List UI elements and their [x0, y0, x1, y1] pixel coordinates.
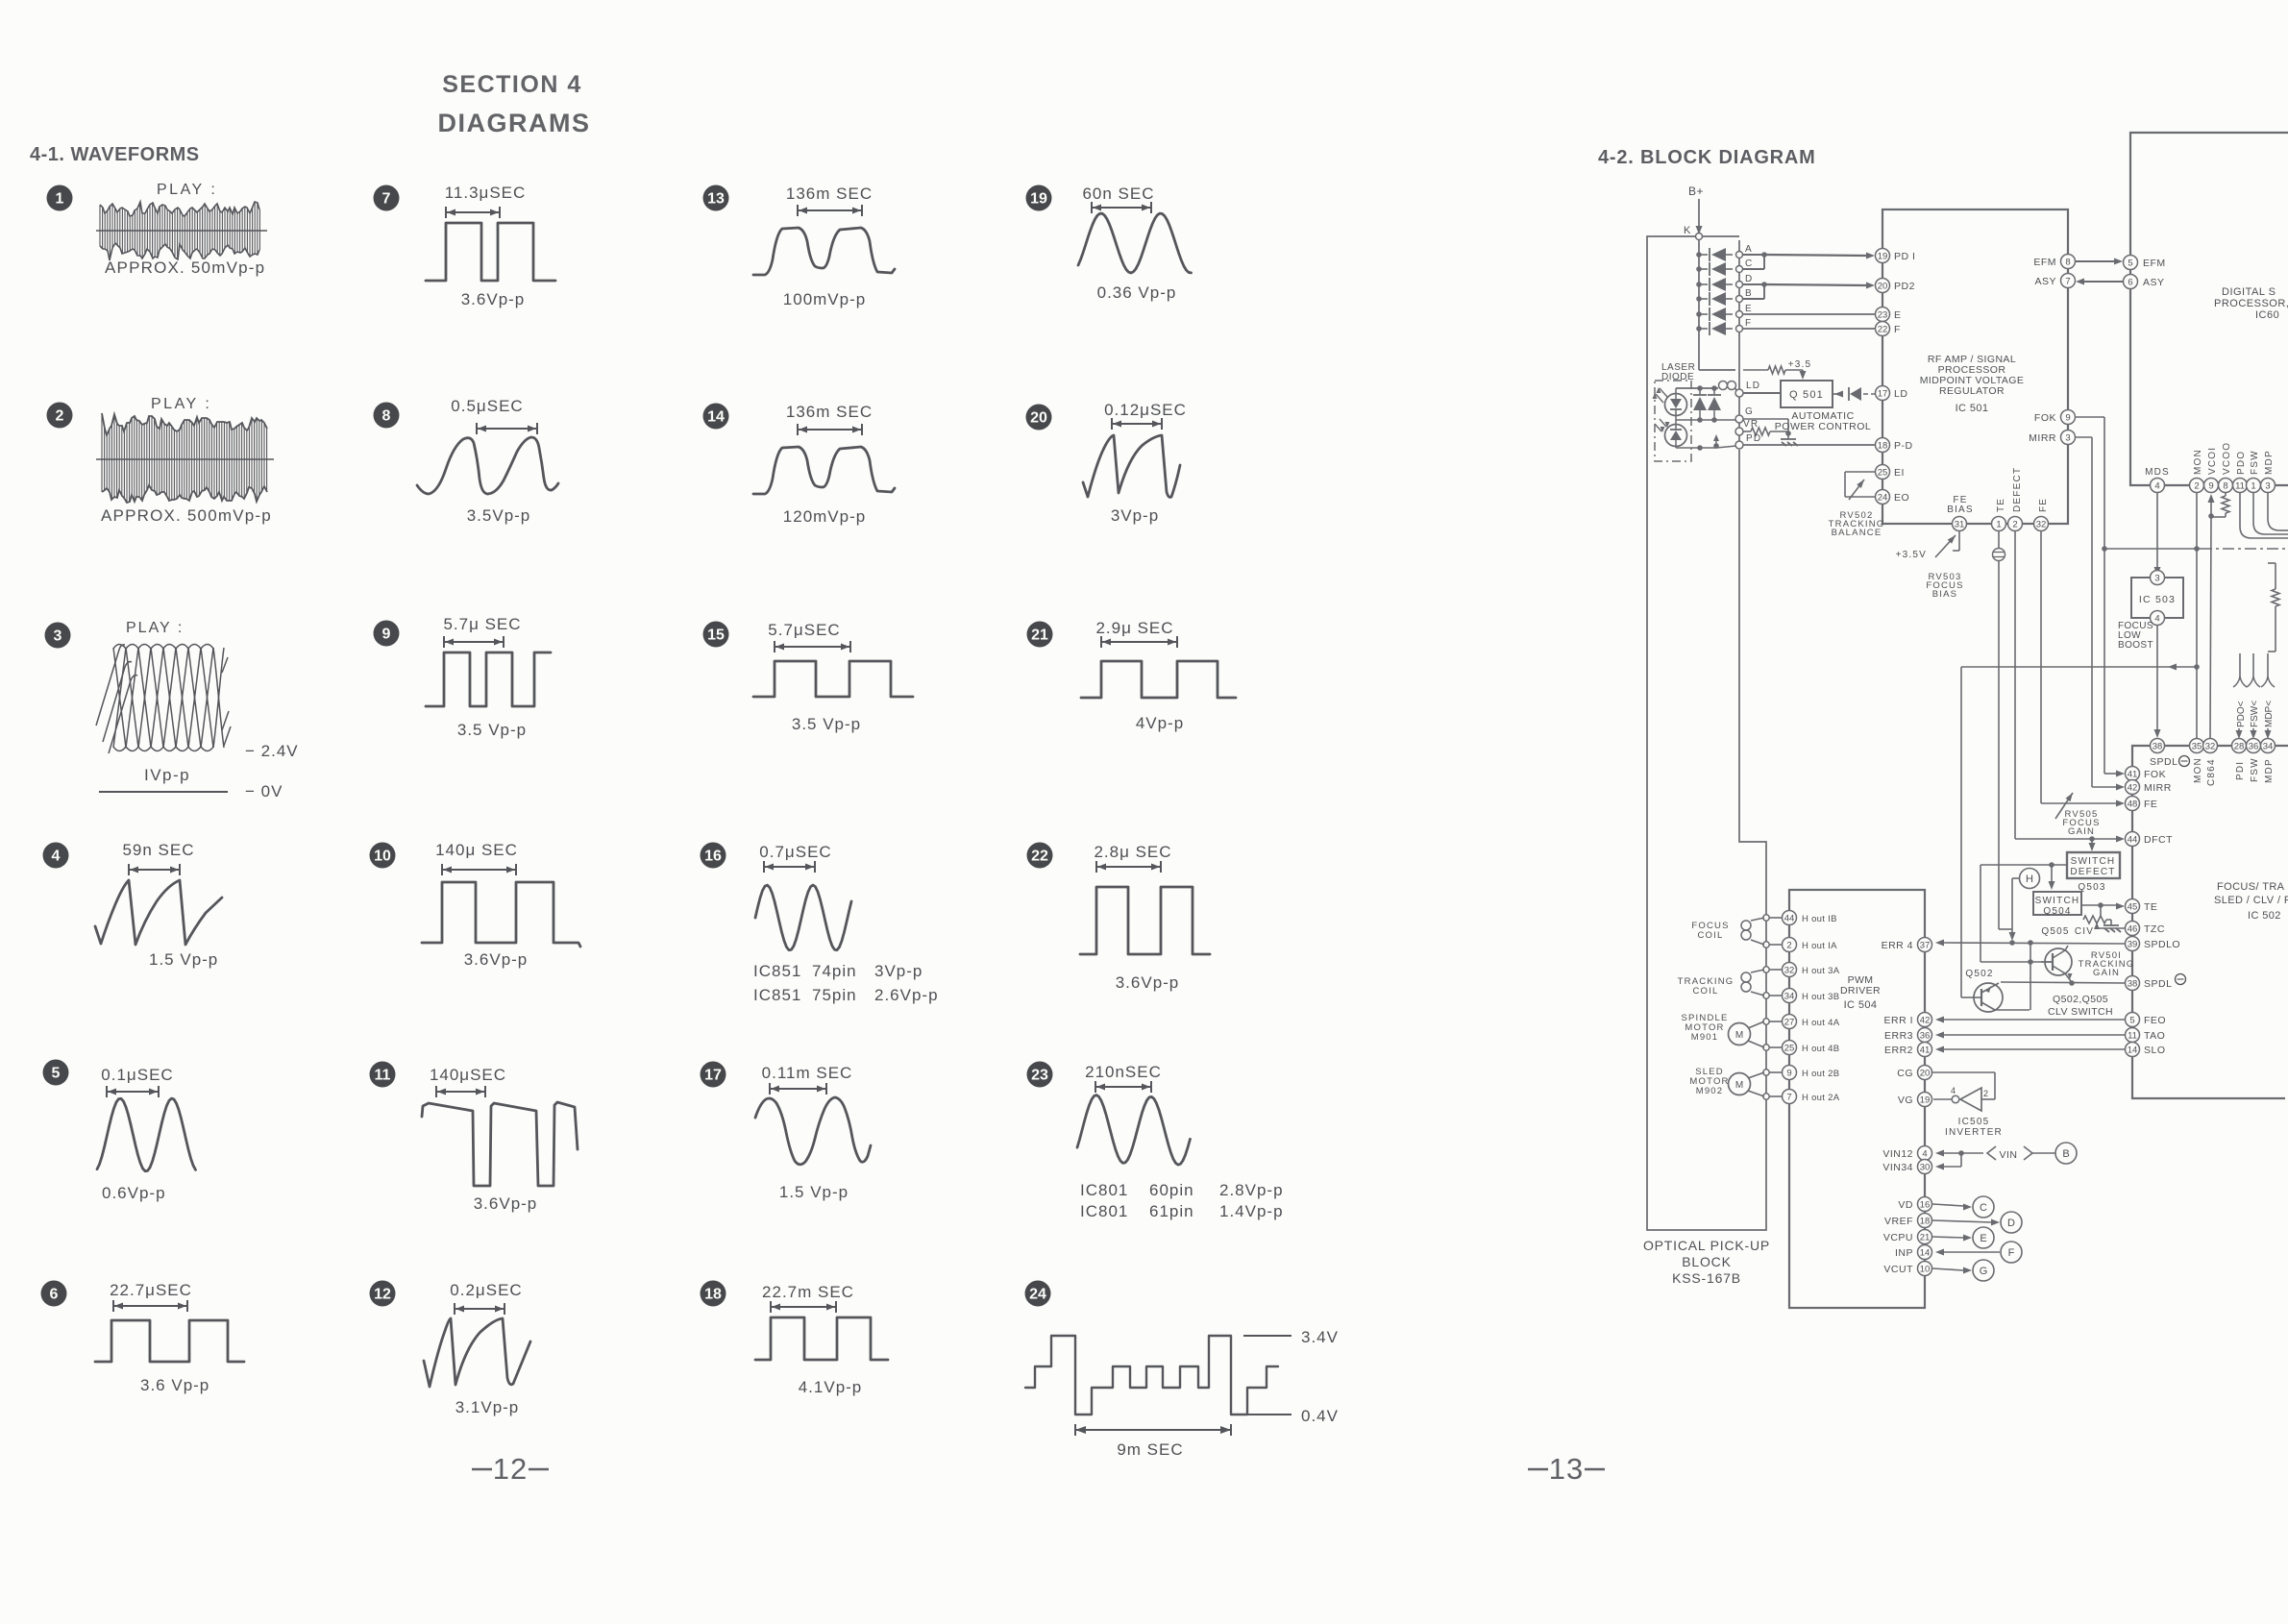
waveform 3 baseline: [99, 791, 228, 793]
waveform 1 noisy EFM trace: [96, 202, 267, 260]
svg-text:FOCUS/ TRA: FOCUS/ TRA: [2217, 881, 2285, 893]
waveform 16 measure arrow: [764, 861, 815, 873]
waveform 2 value label: [101, 506, 272, 525]
svg-text:11.3μSEC: 11.3μSEC: [445, 184, 527, 202]
SPDL- label: [2150, 756, 2190, 769]
svg-text:EFM: EFM: [2033, 257, 2056, 268]
wire Q504 to TE: [2081, 902, 2125, 909]
waveform 4 measure arrow: [129, 864, 180, 875]
node G and wire: [1676, 406, 1788, 432]
svg-text:FEO: FEO: [2144, 1015, 2166, 1026]
transistor Q502: [1974, 943, 2030, 1012]
svg-text:SECTION 4: SECTION 4: [442, 71, 581, 98]
svg-text:A: A: [1745, 244, 1753, 255]
waveform 7 measure arrow: [446, 207, 500, 218]
waveform 16 value labels: [753, 962, 923, 980]
svg-text:OPTICAL PICK-UP: OPTICAL PICK-UP: [1643, 1238, 1770, 1253]
wire MIRR: [2075, 437, 2125, 791]
svg-text:TZC: TZC: [2144, 923, 2165, 935]
waveform 9 time label: [443, 615, 521, 633]
wire DFCT: [2015, 836, 2125, 843]
svg-text:LD: LD: [1894, 388, 1907, 400]
ground symbol VR: [1781, 433, 1798, 446]
H-bridge node: [1763, 1094, 1782, 1099]
waveform 10 badge: [370, 843, 396, 869]
svg-text:0.36 Vp-p: 0.36 Vp-p: [1097, 283, 1177, 302]
waveform 18 time label: [762, 1283, 854, 1301]
svg-text:Q 501: Q 501: [1789, 389, 1824, 401]
svg-text:11: 11: [375, 1068, 391, 1084]
svg-text:CIV: CIV: [2075, 926, 2094, 937]
svg-text:TE: TE: [2144, 901, 2157, 913]
svg-text:3: 3: [2154, 574, 2159, 584]
net PDO into IC502: [2233, 653, 2247, 739]
wire K to +3.5 resistor: [1743, 369, 1768, 371]
svg-text:3.1Vp-p: 3.1Vp-p: [455, 1398, 520, 1416]
svg-text:3.6Vp-p: 3.6Vp-p: [474, 1194, 538, 1213]
IC502 pin 38 SPDL: [2126, 974, 2186, 991]
page number 12: [472, 1452, 549, 1486]
IC502 pin 42 MIRR: [2126, 780, 2172, 795]
waveform 24 badge: [1025, 1281, 1051, 1307]
svg-text:34: 34: [1784, 992, 1795, 1002]
svg-text:BLOCK: BLOCK: [1682, 1254, 1731, 1269]
waveform 10 measure arrow: [442, 864, 516, 875]
waveform 12 time label: [450, 1281, 522, 1299]
svg-text:PD I: PD I: [1894, 251, 1915, 262]
svg-text:H out 2A: H out 2A: [1802, 1093, 1840, 1103]
IC502 pin 39 SPDLO: [2126, 937, 2181, 951]
svg-text:21: 21: [1920, 1233, 1931, 1243]
svg-text:VG: VG: [1898, 1095, 1913, 1106]
waveform 22 badge: [1027, 843, 1053, 869]
waveform 19 sine: [1078, 213, 1192, 273]
waveform 6 value label: [140, 1376, 209, 1394]
photodiode C: [1696, 258, 1753, 276]
svg-text:22: 22: [1031, 849, 1048, 865]
waveform 19 value label: [1097, 283, 1177, 302]
waveform 9 badge: [374, 621, 400, 647]
svg-text:3.4V: 3.4V: [1301, 1328, 1339, 1346]
svg-text:BIAS: BIAS: [1932, 589, 1957, 600]
resistor R to +3.5: [1768, 366, 1807, 380]
waveform 7 value label: [461, 290, 526, 308]
wire VD to C: [1932, 1204, 1972, 1211]
svg-text:0.1μSEC: 0.1μSEC: [101, 1066, 173, 1084]
svg-text:SWITCH: SWITCH: [2035, 896, 2080, 906]
svg-text:4: 4: [52, 849, 61, 865]
svg-text:60pin: 60pin: [1149, 1181, 1194, 1199]
RV501 tracking gain: [2083, 905, 2111, 923]
svg-text:3.6Vp-p: 3.6Vp-p: [1116, 973, 1180, 992]
svg-text:39: 39: [2128, 940, 2138, 950]
IC504 pin 42 ERR I: [1883, 1013, 1931, 1027]
svg-text:140μSEC: 140μSEC: [430, 1066, 506, 1084]
wire pin1 TE down: [1993, 531, 2013, 929]
svg-text:ERR I: ERR I: [1883, 1015, 1913, 1026]
IC504 pin 34 H out 3B: [1783, 989, 1840, 1003]
net MDP into IC502: [2261, 653, 2275, 739]
waveform 19 time label: [1082, 185, 1154, 203]
svg-text:H out IA: H out IA: [1802, 941, 1837, 951]
IC504 pin 37 ERR 4: [1882, 938, 1932, 952]
wire FEO: [1935, 1017, 2125, 1023]
waveform 3 label PLAY: [126, 620, 184, 636]
svg-text:C864: C864: [2206, 758, 2217, 786]
svg-text:32: 32: [2036, 520, 2047, 530]
IC502 pin 45 TE: [2126, 899, 2158, 914]
svg-text:42: 42: [1920, 1016, 1931, 1026]
svg-text:MDP: MDP: [2264, 758, 2275, 783]
waveform 5 time label: [101, 1066, 173, 1084]
node K top: [1684, 225, 1703, 240]
net FSW upper exit: [2253, 493, 2288, 534]
waveform 21 time label: [1095, 619, 1173, 637]
svg-text:20: 20: [1030, 410, 1047, 427]
IC501 pin 18 P-D: [1876, 438, 1913, 453]
waveform 17 badge: [701, 1062, 726, 1088]
svg-text:4-1. WAVEFORMS: 4-1. WAVEFORMS: [30, 144, 200, 165]
svg-text:41: 41: [1920, 1046, 1931, 1056]
svg-text:19: 19: [1920, 1095, 1931, 1106]
IC504 pin 41 ERR2: [1884, 1043, 1932, 1057]
waveform 23 sine: [1077, 1095, 1191, 1166]
waveform 6 square wave: [95, 1320, 244, 1362]
svg-text:APPROX. 50mVp-p: APPROX. 50mVp-p: [105, 258, 265, 277]
IC503 pin 4: [2151, 611, 2165, 626]
svg-text:MIRR: MIRR: [2144, 782, 2172, 794]
svg-text:SWITCH: SWITCH: [2071, 856, 2116, 867]
wire TAO: [1935, 1032, 2125, 1039]
svg-text:SLO: SLO: [2144, 1045, 2166, 1056]
IC502 pin 34 top: [2261, 739, 2276, 753]
svg-text:EFM: EFM: [2143, 258, 2166, 269]
svg-text:2.8Vp-p: 2.8Vp-p: [1219, 1181, 1284, 1199]
waveform 10 square wave: [422, 882, 580, 947]
svg-text:PDI: PDI: [2235, 761, 2246, 780]
wire F: [1743, 328, 1875, 330]
H-bridge node: [1763, 915, 1782, 921]
svg-text:17: 17: [1878, 389, 1888, 400]
svg-text:5: 5: [2128, 258, 2132, 269]
svg-text:SPDL: SPDL: [2144, 978, 2172, 990]
waveform 14 rounded square wave: [753, 447, 895, 494]
svg-text:VR: VR: [1743, 419, 1759, 430]
IC502 pin 38 top: [2151, 739, 2165, 753]
svg-text:18: 18: [704, 1287, 722, 1303]
svg-text:H out 4A: H out 4A: [1802, 1018, 1840, 1028]
svg-text:28: 28: [2234, 742, 2245, 752]
waveform 4 value label: [149, 950, 218, 969]
page number 13: [1528, 1452, 1605, 1486]
waveform 2 badge: [47, 403, 73, 429]
svg-text:1: 1: [2251, 481, 2255, 492]
CLV control wire from MON: [1961, 664, 2200, 998]
svg-text:1.5 Vp-p: 1.5 Vp-p: [149, 950, 218, 969]
svg-text:C: C: [1745, 258, 1753, 269]
svg-text:60n SEC: 60n SEC: [1082, 185, 1154, 203]
svg-text:M902: M902: [1696, 1086, 1724, 1096]
wire EFM 8 to 5: [2076, 258, 2123, 265]
svg-text:3Vp-p: 3Vp-p: [874, 962, 923, 980]
wire MON: [2194, 493, 2200, 738]
svg-text:PLAY :: PLAY :: [151, 396, 211, 412]
svg-text:23: 23: [1878, 310, 1888, 321]
waveform 18 measure arrow: [771, 1301, 836, 1313]
node C: [1973, 1196, 1994, 1218]
svg-text:2.8μ SEC: 2.8μ SEC: [1094, 843, 1171, 861]
IC504 pin 16 VD: [1898, 1197, 1931, 1212]
waveform 14 time label: [786, 403, 873, 421]
svg-text:35: 35: [2192, 742, 2202, 752]
waveform 21 square wave: [1081, 661, 1236, 698]
waveform 17 time label: [762, 1064, 853, 1082]
svg-text:44: 44: [1784, 914, 1795, 924]
svg-text:BALANCE: BALANCE: [1832, 528, 1882, 538]
svg-text:31: 31: [1955, 520, 1965, 530]
IC502 pin 46 TZC: [2126, 922, 2165, 936]
IC501 pin 7 ASY: [2034, 274, 2075, 288]
svg-text:INP: INP: [1895, 1247, 1913, 1259]
svg-text:3Vp-p: 3Vp-p: [1111, 506, 1159, 525]
svg-text:25: 25: [1784, 1044, 1795, 1054]
spindle motor M901: [1681, 1013, 1764, 1047]
H-bridge node: [1763, 1070, 1782, 1075]
svg-text:3.5Vp-p: 3.5Vp-p: [467, 506, 531, 525]
svg-text:6: 6: [2128, 278, 2132, 288]
IC504 pin 10 VCUT: [1883, 1262, 1931, 1276]
svg-text:DFCT: DFCT: [2144, 834, 2173, 846]
svg-text:9: 9: [1786, 1069, 1791, 1079]
svg-text:9: 9: [382, 627, 391, 643]
IC504 pin 27 H out 4A: [1783, 1015, 1840, 1029]
svg-text:MIRR: MIRR: [2029, 432, 2056, 444]
IC502 pin 41 FOK: [2126, 767, 2167, 781]
svg-text:G: G: [1980, 1266, 1988, 1277]
wire VCUT to G: [1932, 1267, 1972, 1274]
IC504 pin 4 VIN12: [1882, 1146, 1931, 1161]
svg-text:EI: EI: [1894, 467, 1905, 479]
svg-text:IC60: IC60: [2255, 309, 2279, 321]
waveform 18 badge: [701, 1281, 726, 1307]
wire ASY 6 to 7: [2076, 279, 2123, 285]
svg-text:4Vp-p: 4Vp-p: [1136, 714, 1184, 732]
IC502 pin 44 DFCT: [2126, 832, 2174, 847]
svg-text:VREF: VREF: [1884, 1216, 1913, 1227]
svg-text:PROCESSOR, C: PROCESSOR, C: [2214, 298, 2288, 309]
svg-text:5.7μSEC: 5.7μSEC: [768, 621, 840, 639]
laser diode dash-dot box: [1655, 381, 1691, 461]
waveform 3 badge: [45, 623, 71, 649]
photodiode F: [1696, 318, 1752, 335]
svg-text:H: H: [2026, 874, 2033, 885]
svg-text:2.6Vp-p: 2.6Vp-p: [874, 986, 939, 1004]
IC504 pin 30 VIN34: [1882, 1160, 1931, 1174]
svg-text:2.9μ SEC: 2.9μ SEC: [1095, 619, 1173, 637]
svg-text:9: 9: [2208, 481, 2213, 492]
waveform 18 square wave: [755, 1317, 888, 1360]
svg-text:10: 10: [1920, 1265, 1931, 1275]
svg-text:8: 8: [2223, 481, 2227, 492]
waveform 13 rounded square wave: [753, 228, 895, 275]
svg-text:12: 12: [493, 1452, 528, 1486]
svg-text:TE: TE: [1996, 498, 2006, 512]
svg-text:F: F: [1745, 318, 1752, 329]
svg-text:F: F: [1894, 324, 1901, 335]
CLV switch caption: [2048, 994, 2113, 1018]
svg-text:H out 3B: H out 3B: [1802, 992, 1839, 1002]
svg-text:20: 20: [1920, 1069, 1931, 1079]
waveform 22 square wave: [1080, 887, 1210, 954]
svg-text:24: 24: [1029, 1287, 1046, 1303]
ground RV501: [2103, 920, 2121, 932]
svg-text:120mVp-p: 120mVp-p: [783, 507, 866, 526]
svg-text:19: 19: [1030, 191, 1047, 208]
svg-text:H out 2B: H out 2B: [1802, 1069, 1839, 1079]
waveform 1 label PLAY: [157, 182, 217, 198]
svg-text:Q504: Q504: [2043, 906, 2071, 917]
svg-text:FOK: FOK: [2034, 412, 2056, 424]
waveform 8 value label: [467, 506, 531, 525]
svg-text:2: 2: [56, 408, 64, 425]
wire defect switch to Q504: [1980, 862, 2067, 965]
waveform 17 distorted sine: [755, 1097, 871, 1165]
svg-text:0.4V: 0.4V: [1301, 1407, 1339, 1425]
waveform 20 badge: [1026, 405, 1052, 431]
switch Q504: [2033, 892, 2081, 917]
svg-text:POWER CONTROL: POWER CONTROL: [1775, 421, 1871, 432]
svg-text:DEFECT: DEFECT: [2070, 867, 2115, 877]
H-bridge node: [1763, 1045, 1782, 1050]
svg-text:Q502,Q505: Q502,Q505: [2053, 994, 2108, 1005]
svg-text:42: 42: [2128, 783, 2138, 794]
svg-text:9: 9: [2065, 413, 2070, 424]
svg-text:18: 18: [1878, 441, 1888, 452]
svg-text:2: 2: [2012, 520, 2017, 530]
waveform 15 time label: [768, 621, 840, 639]
svg-text:PD2: PD2: [1894, 281, 1915, 292]
waveform 7 badge: [374, 185, 400, 211]
laser diode LD: [1653, 387, 1687, 416]
svg-text:1.5 Vp-p: 1.5 Vp-p: [779, 1183, 849, 1201]
photodiode ladder bus: [1699, 240, 1739, 446]
IC601 pin 11: [2233, 479, 2248, 493]
waveform 17 value label: [779, 1183, 849, 1201]
svg-text:1.4Vp-p: 1.4Vp-p: [1219, 1202, 1284, 1220]
focus low boost caption: [2118, 621, 2153, 651]
svg-text:FSW<: FSW<: [2250, 701, 2260, 727]
svg-text:H out 3A: H out 3A: [1802, 966, 1840, 976]
svg-text:PLAY :: PLAY :: [126, 620, 184, 636]
waveform 11 time label: [430, 1066, 506, 1084]
svg-text:TAO: TAO: [2144, 1030, 2165, 1042]
waveform 20 measure arrow: [1112, 418, 1162, 430]
waveform 3 labels: [144, 742, 299, 800]
svg-text:0.2μSEC: 0.2μSEC: [450, 1281, 522, 1299]
waveform 4 sawtooth: [95, 880, 222, 945]
IC502 pin 48 FE: [2126, 797, 2158, 811]
switch defect Q503: [2067, 839, 2120, 893]
waveform 21 value label: [1136, 714, 1184, 732]
svg-text:KSS-167B: KSS-167B: [1672, 1270, 1741, 1286]
RV502 tracking balance: [1845, 472, 1875, 500]
svg-text:2: 2: [1983, 1089, 1989, 1098]
waveform 15 badge: [703, 622, 729, 648]
svg-text:37: 37: [1920, 941, 1931, 951]
IC601 pin 1: [2247, 479, 2261, 493]
node D: [2001, 1212, 2022, 1233]
svg-text:REGULATOR: REGULATOR: [1939, 385, 2005, 397]
IC502 pin 36 top: [2247, 739, 2261, 753]
resistor at page edge: [2268, 563, 2279, 652]
svg-text:48: 48: [2128, 800, 2138, 810]
svg-text:PD: PD: [1746, 433, 1761, 444]
IC501 pin 8 EFM: [2033, 255, 2075, 269]
waveform 7 square wave: [426, 223, 555, 281]
svg-text:3.6Vp-p: 3.6Vp-p: [464, 950, 529, 969]
svg-text:ERR 4: ERR 4: [1882, 940, 1913, 951]
waveform 19 badge: [1026, 185, 1052, 211]
IC504 pin 19 VG: [1898, 1093, 1932, 1107]
svg-text:D: D: [2007, 1218, 2015, 1229]
svg-text:MDP<: MDP<: [2264, 701, 2275, 727]
IC503 pin 3: [2151, 571, 2165, 585]
svg-text:7: 7: [2065, 277, 2070, 287]
waveform 5 sine: [97, 1098, 196, 1171]
svg-text:DIGITAL S: DIGITAL S: [2222, 286, 2276, 298]
wire FOK: [2075, 417, 2125, 777]
wire SPDL-: [2001, 980, 2125, 986]
svg-text:74pin: 74pin: [812, 962, 857, 980]
waveform 15 square wave: [753, 661, 913, 697]
RV501 wiper: [2094, 923, 2125, 929]
svg-text:VCOO: VCOO: [2222, 442, 2232, 475]
IC502 caption: [2214, 881, 2288, 922]
Q501 box: [1781, 381, 1833, 407]
digital signal processor IC601: [2130, 133, 2288, 485]
waveform 2 label PLAY: [151, 396, 211, 412]
waveform 11 value label: [474, 1194, 538, 1213]
svg-text:13: 13: [1549, 1452, 1584, 1486]
waveform 22 value label: [1116, 973, 1180, 992]
waveform 9 measure arrow: [444, 636, 504, 648]
wire SPDLO to ERR4: [1935, 940, 2125, 947]
waveform 13 measure arrow: [798, 205, 862, 216]
svg-text:K: K: [1684, 225, 1692, 236]
IC501 pin 22 F: [1876, 322, 1901, 336]
svg-text:1: 1: [1996, 520, 2001, 530]
clamp diode pair: [1693, 385, 1707, 423]
servo block IC502: [2132, 746, 2288, 1098]
svg-text:DEFECT: DEFECT: [2012, 467, 2023, 512]
wire A+C to PD1: [1743, 252, 1875, 269]
svg-text:M: M: [1735, 1030, 1743, 1041]
svg-text:E: E: [1980, 1233, 1986, 1244]
op-amp block IC501 RF amp: [1882, 209, 2068, 524]
IC504 pin 44 H out IB: [1783, 911, 1837, 925]
photodiode D: [1696, 274, 1753, 291]
svg-text:25: 25: [1878, 468, 1888, 479]
IC502 pin 32 top: [2203, 739, 2218, 753]
svg-text:3.6Vp-p: 3.6Vp-p: [461, 290, 526, 308]
IC601 pin 5 EFM: [2124, 256, 2166, 270]
svg-text:2: 2: [2194, 481, 2199, 492]
svg-text:46: 46: [2128, 924, 2138, 935]
wire VREF to D: [1932, 1219, 2000, 1226]
optical pick-up block outline: [1647, 236, 1766, 1230]
svg-text:SPDL: SPDL: [2150, 756, 2177, 768]
svg-text:IC851: IC851: [753, 986, 801, 1004]
